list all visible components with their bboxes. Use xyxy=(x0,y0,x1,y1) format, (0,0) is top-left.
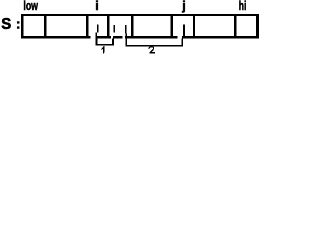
array bottom border (with gaps at bracket ends) xyxy=(21,36,91,39)
pointer dash under i xyxy=(97,25,99,33)
bracket 2 left vertical xyxy=(125,34,127,47)
bracket 2 right vertical xyxy=(181,39,183,47)
range number 1 xyxy=(102,46,105,53)
range number 2 xyxy=(149,47,155,53)
svg-text:i: i xyxy=(95,0,98,13)
svg-text::: : xyxy=(16,15,21,31)
bracket 2 horizontal xyxy=(125,45,183,47)
divider C xyxy=(107,16,110,36)
bracket 1 horizontal xyxy=(96,44,114,46)
svg-text:j: j xyxy=(181,0,185,13)
bracket 1 right vertical xyxy=(112,39,114,46)
quicksort partition array diagram S[low..hi] with pointers i, j and sub-ranges 1 and 2 xyxy=(0,0,263,64)
svg-text:low: low xyxy=(23,0,38,13)
divider D xyxy=(131,16,134,36)
svg-text:S: S xyxy=(1,16,11,33)
divider E xyxy=(171,16,174,36)
divider A xyxy=(44,16,47,36)
bracket 1 left vertical xyxy=(96,39,98,46)
array right edge xyxy=(256,14,259,39)
dash tick t2 xyxy=(113,25,115,33)
dash tick t3 xyxy=(125,25,127,34)
svg-text:hi: hi xyxy=(239,0,247,13)
array top border xyxy=(21,14,259,16)
array left edge xyxy=(21,14,24,39)
pointer dash under j xyxy=(183,25,185,39)
divider F xyxy=(193,16,195,36)
divider G xyxy=(234,16,237,36)
divider B xyxy=(86,16,89,36)
